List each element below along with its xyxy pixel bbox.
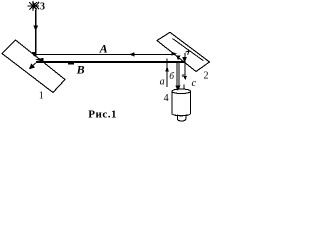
arrow left on ray A bbox=[129, 52, 135, 56]
arrow at ray end on mirror 1 bbox=[32, 52, 36, 57]
arrow down into tube bbox=[175, 86, 180, 91]
svg-text:a: a bbox=[160, 77, 165, 88]
svg-text:4: 4 bbox=[164, 93, 169, 104]
ray в (short, down) bbox=[184, 53, 186, 78]
svg-text:с: с bbox=[192, 78, 197, 89]
dash under ray B bbox=[68, 63, 74, 65]
light source star 3 bbox=[27, 1, 39, 11]
arrow left on ray B near mirror 1 bbox=[35, 58, 44, 62]
arrow down on ray в bbox=[183, 76, 187, 80]
svg-text:в: в bbox=[182, 72, 185, 79]
arrow down at A reflection point bbox=[176, 55, 181, 60]
arrow down on vertical ray bbox=[33, 26, 38, 31]
ray pair down into tube (double line) bbox=[176, 63, 178, 90]
tube 4 eyepiece bbox=[177, 115, 186, 122]
arrow at right end of ray A bbox=[171, 52, 177, 56]
arrow down at B reflection point bbox=[182, 57, 187, 63]
mirror 2 (tilted plate) bbox=[157, 32, 210, 71]
wire: vertical ray from source down to mirror 1 bbox=[35, 10, 37, 56]
tube 4 top ellipse bbox=[172, 89, 191, 94]
arrow up on ray a bbox=[165, 66, 169, 71]
small arrow on plate 2 top face bbox=[185, 51, 189, 55]
svg-text:B: B bbox=[76, 63, 85, 77]
svg-text:A: A bbox=[99, 42, 108, 56]
ray a (upward) bbox=[166, 59, 168, 88]
ray A bbox=[35, 53, 175, 55]
svg-text:1: 1 bbox=[39, 90, 44, 101]
internal ray in plate 1 bbox=[30, 62, 37, 68]
svg-text:2: 2 bbox=[204, 71, 209, 82]
svg-text:Рис.1: Рис.1 bbox=[88, 109, 117, 121]
small dash below в bbox=[183, 85, 185, 90]
ray B bbox=[36, 61, 184, 63]
mirror 1 (tilted plate) bbox=[2, 40, 65, 93]
tube 4 body bbox=[172, 91, 191, 116]
inner face line of plate 2 bbox=[173, 39, 204, 61]
svg-text:3: 3 bbox=[40, 2, 45, 13]
svg-text:б: б bbox=[169, 71, 175, 82]
internal ray arrowhead bbox=[29, 64, 35, 70]
